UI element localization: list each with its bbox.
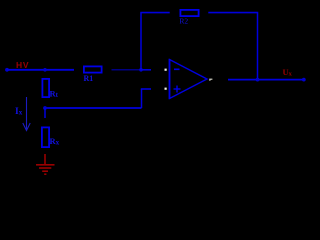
resistor Rt	[42, 79, 49, 97]
wire output	[228, 79, 304, 81]
op-amp plus sign	[174, 88, 181, 90]
wire node D to Rx	[44, 108, 46, 118]
svg-text:R2: R2	[179, 16, 188, 25]
wire HV to junction A	[7, 69, 74, 71]
node B junction	[139, 68, 143, 72]
wire non-inverting vertical	[141, 89, 143, 108]
pin output marker	[209, 79, 212, 81]
wire non-inverting input horizontal	[141, 88, 151, 90]
current arrow Ix	[26, 97, 28, 130]
pin inverting input	[165, 69, 167, 71]
pin non-inverting input	[165, 88, 167, 90]
op-amp U1	[170, 60, 208, 99]
wire feedback right vertical	[257, 13, 259, 80]
svg-text:HV: HV	[16, 60, 29, 70]
wire feedback top left	[140, 12, 169, 14]
svg-text:R1: R1	[84, 74, 94, 83]
wire node D to non-inverting path	[45, 107, 142, 109]
ground	[36, 154, 55, 174]
op-amp minus sign	[174, 68, 180, 70]
node HV terminal	[5, 68, 9, 72]
node Ux terminal	[302, 78, 306, 82]
svg-text:Rt: Rt	[50, 89, 59, 99]
svg-text:Rx: Rx	[50, 136, 60, 146]
resistor R1	[84, 66, 102, 72]
wire R1 to node B	[112, 69, 140, 71]
wire feedback top right	[208, 12, 258, 14]
resistor R2	[180, 10, 198, 16]
wire feedback left vertical	[140, 13, 142, 70]
node C junction output/feedback	[256, 78, 260, 82]
node D junction	[43, 106, 47, 110]
resistor Rx	[42, 127, 49, 147]
svg-text:Ix: Ix	[15, 107, 23, 117]
wire node B to inverting input	[141, 69, 151, 71]
node A junction	[43, 68, 47, 72]
